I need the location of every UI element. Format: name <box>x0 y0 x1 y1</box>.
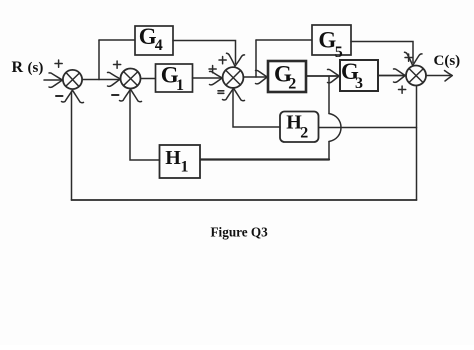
arrowhead into S4 left <box>394 69 406 83</box>
svg-text:Figure Q3: Figure Q3 <box>211 225 269 240</box>
arrowhead into S3 left <box>210 71 223 85</box>
sign plus S2 left input <box>114 61 121 68</box>
wire hop over H2 line <box>329 114 341 142</box>
block G3 <box>340 60 378 91</box>
block G5 <box>312 25 351 55</box>
block H1 <box>160 145 201 178</box>
sign plus S4 top input <box>405 54 412 61</box>
svg-text:2: 2 <box>288 76 296 93</box>
summing junction S1 <box>63 70 82 89</box>
wire S2 to G1 <box>141 78 156 80</box>
arrowhead output <box>445 71 453 82</box>
sign minus S3 bottom input (double dash) <box>218 91 224 94</box>
wire outer feedback loop bottom <box>72 199 417 201</box>
wire node to G4 input <box>99 39 135 41</box>
block G4 <box>135 26 173 55</box>
arrowhead into S2 bottom <box>120 90 142 102</box>
block H2 <box>280 112 319 143</box>
arrowhead into S3 top <box>227 53 245 66</box>
svg-text:R: R <box>12 59 24 76</box>
arrowhead into S1 bottom <box>62 91 84 103</box>
svg-text:4: 4 <box>155 37 163 54</box>
sign plus S1 left input <box>55 60 62 67</box>
arrowhead into G3 left <box>328 69 340 83</box>
arrowhead into S1 left <box>49 73 63 88</box>
wire outer loop up to S1 bottom <box>71 91 73 200</box>
node takeoff between G2 and G3 down to H1 <box>328 76 330 114</box>
svg-text:1: 1 <box>176 77 184 94</box>
arrowhead into S4 top <box>405 52 423 65</box>
sign plus S3 left input <box>209 66 216 73</box>
svg-text:3: 3 <box>355 75 363 92</box>
sign plus S4 left input <box>399 86 406 93</box>
sign plus S3 top input <box>219 57 226 64</box>
svg-text:H: H <box>165 147 181 169</box>
wire S4 bottom takeoff down <box>416 86 418 200</box>
node takeoff to G5 <box>255 40 257 77</box>
wire H1 output to S2 bottom <box>130 91 160 161</box>
wire hop down to H1 level <box>328 142 330 160</box>
wire S1 to S2 <box>82 79 120 81</box>
arrowhead into S3 bottom <box>223 89 245 101</box>
wire G2 to G3 <box>306 75 338 77</box>
wire node to G5 input <box>256 39 312 41</box>
wire R(s) input to S1 <box>44 79 61 81</box>
arrowhead into S2 left <box>108 72 121 86</box>
node takeoff to G4 <box>98 40 100 80</box>
svg-text:C(s): C(s) <box>434 53 461 69</box>
block G1 <box>156 64 193 92</box>
arrowhead into G2 left <box>256 70 268 84</box>
block G2 <box>268 61 306 92</box>
sign minus S2 bottom input <box>112 94 119 96</box>
wire G5 output to S4 top <box>351 42 413 63</box>
wire G4 output to S3 top <box>173 41 236 64</box>
wire G3 to S4 <box>378 75 404 77</box>
wire S4 to C(s) output <box>426 75 450 77</box>
sign minus S1 bottom input <box>56 95 63 97</box>
wire S3 to G2 <box>244 76 267 78</box>
svg-text:2: 2 <box>300 125 308 142</box>
wire C takeoff to H2 input <box>319 127 417 129</box>
summing junction S4 <box>406 66 426 86</box>
svg-text:G: G <box>318 28 336 53</box>
wire to H1 input <box>200 158 329 160</box>
summing junction S2 <box>121 69 141 89</box>
wire G1 to S3 <box>193 77 222 79</box>
svg-text:(s): (s) <box>28 60 44 76</box>
summing junction S3 <box>223 67 244 88</box>
svg-text:1: 1 <box>181 159 189 176</box>
wire H2 output to S3 bottom <box>233 90 280 127</box>
